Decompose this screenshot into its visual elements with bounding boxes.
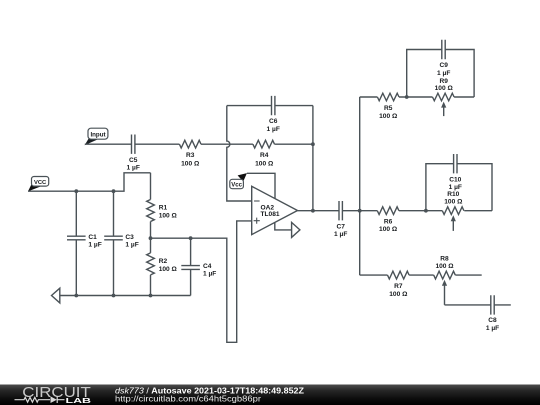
ground symbol xyxy=(52,288,60,303)
resistor R4 xyxy=(253,140,275,167)
svg-text:1 µF: 1 µF xyxy=(203,271,216,278)
wire feedback left vertical with hop over input row xyxy=(227,106,252,201)
flag VCC xyxy=(28,177,49,192)
svg-text:1 µF: 1 µF xyxy=(88,241,101,248)
svg-text:1 µF: 1 µF xyxy=(125,241,138,248)
resistor R5 xyxy=(377,93,399,120)
svg-text:R7: R7 xyxy=(394,283,403,290)
resistor R2 xyxy=(147,238,178,295)
wire feedback right vertical to output xyxy=(312,106,314,211)
svg-text:C9: C9 xyxy=(439,62,448,69)
resistor R1 xyxy=(147,173,178,238)
svg-text:1 µF: 1 µF xyxy=(437,70,450,77)
capacitor C6 xyxy=(267,96,280,133)
capacitor C7 xyxy=(334,201,347,238)
capacitor C1 xyxy=(67,191,102,295)
wire R7 row xyxy=(360,274,482,276)
ground symbol at op-amp xyxy=(292,222,300,237)
svg-text:R9: R9 xyxy=(439,78,448,85)
svg-text:R6: R6 xyxy=(384,218,393,225)
svg-text:100 Ω: 100 Ω xyxy=(435,263,454,270)
svg-text:100 Ω: 100 Ω xyxy=(444,199,463,206)
svg-text:100 Ω: 100 Ω xyxy=(379,113,398,120)
svg-text:Input: Input xyxy=(90,132,105,139)
svg-text:1 µF: 1 µF xyxy=(449,184,462,191)
svg-text:100 Ω: 100 Ω xyxy=(379,226,398,233)
svg-text:C8: C8 xyxy=(488,317,497,324)
svg-text:C1: C1 xyxy=(88,234,97,241)
potentiometer R10 xyxy=(442,191,464,231)
resistor R3 xyxy=(179,140,201,167)
svg-text:C3: C3 xyxy=(125,234,134,241)
capacitor C3 xyxy=(104,191,139,295)
svg-text:C4: C4 xyxy=(203,263,212,270)
svg-text:100 Ω: 100 Ω xyxy=(159,213,178,220)
svg-text:LAB: LAB xyxy=(66,396,92,405)
wire C9 branch xyxy=(407,50,474,98)
svg-text:C10: C10 xyxy=(449,176,461,183)
wire C10 branch xyxy=(426,164,492,211)
capacitor C8 xyxy=(486,295,499,332)
wire feedback top branch xyxy=(227,105,313,107)
potentiometer R8 xyxy=(434,255,456,305)
wire op-amp output row xyxy=(298,210,360,212)
wire R5 row xyxy=(360,96,474,98)
svg-text:100 Ω: 100 Ω xyxy=(255,160,274,167)
op-amp U1 OA2 TL081 xyxy=(252,186,298,234)
svg-text:R3: R3 xyxy=(186,152,195,159)
flag Input xyxy=(85,128,108,145)
svg-text:R2: R2 xyxy=(159,258,168,265)
svg-text:R4: R4 xyxy=(260,152,269,159)
svg-text:C7: C7 xyxy=(336,223,345,230)
svg-text:100 Ω: 100 Ω xyxy=(159,266,178,273)
wire right vertical bus xyxy=(359,97,361,275)
svg-text:1 µF: 1 µF xyxy=(486,325,499,332)
svg-text:R8: R8 xyxy=(440,255,449,262)
wire R6 row xyxy=(360,210,492,212)
svg-text:100 Ω: 100 Ω xyxy=(181,160,200,167)
svg-text:Vcc: Vcc xyxy=(231,183,242,189)
flag Vcc (op-amp supply) xyxy=(230,173,247,189)
potentiometer R9 xyxy=(433,78,455,116)
wire mid node R1/R2 to C4 and U-route to op-amp + input xyxy=(151,221,252,342)
svg-text:VCC: VCC xyxy=(34,180,47,186)
wire Vcc to op-amp power pin xyxy=(247,173,275,198)
junction dots right network xyxy=(358,95,428,213)
capacitor C5 xyxy=(127,135,140,172)
svg-text:100 Ω: 100 Ω xyxy=(435,85,454,92)
junction dots op-amp area xyxy=(311,142,315,212)
svg-text:R5: R5 xyxy=(384,105,393,112)
resistor R6 xyxy=(377,207,399,233)
svg-text:C5: C5 xyxy=(129,157,138,164)
bottom bar background xyxy=(0,385,540,405)
wire input row xyxy=(85,143,313,145)
svg-text:1 µF: 1 µF xyxy=(267,126,280,133)
wire ground rail xyxy=(60,295,191,297)
svg-text:1 µF: 1 µF xyxy=(127,165,140,172)
svg-text:TL081: TL081 xyxy=(261,211,280,218)
svg-text:1 µF: 1 µF xyxy=(334,231,347,238)
wire R8 wiper to C8 xyxy=(445,304,511,306)
svg-text:C6: C6 xyxy=(269,118,278,125)
svg-text:R10: R10 xyxy=(447,191,459,198)
wire op-amp V- pin to ground xyxy=(275,222,292,230)
svg-text:R1: R1 xyxy=(159,205,168,212)
svg-text:http://circuitlab.com/c64ht5cg: http://circuitlab.com/c64ht5cgb86pr xyxy=(115,394,261,404)
capacitor C4 xyxy=(181,238,216,295)
junction dots left section xyxy=(74,189,192,297)
svg-text:100 Ω: 100 Ω xyxy=(389,291,408,298)
CircuitLab logo wire with resistor and diode xyxy=(15,396,65,403)
resistor R7 xyxy=(388,271,410,298)
wire VCC rail xyxy=(28,173,151,191)
capacitor C10 xyxy=(449,154,462,191)
capacitor C9 xyxy=(437,40,450,77)
